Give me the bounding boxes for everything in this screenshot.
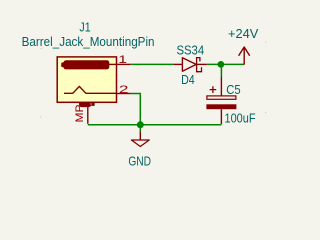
svg-text:Barrel_Jack_MountingPin: Barrel_Jack_MountingPin [22,34,155,49]
grid dot [265,112,266,113]
capacitor C5 top lead [220,77,222,96]
J1 tip contact nub [61,62,65,67]
capacitor C5 top plate [207,96,236,99]
junction at diode output [218,61,225,68]
svg-text:1: 1 [118,54,127,66]
power symbol +24V arrow [239,47,250,65]
diode D4 cathode lead [197,63,207,65]
ground symbol lead [139,125,141,132]
J1 mounting tab small square [91,103,94,106]
J1 tip to pin line [109,63,117,65]
diode D4 triangle [182,58,196,71]
wire pin1 to diode [131,63,174,65]
bottom ground wire [88,124,222,126]
svg-text:+24V: +24V [228,26,258,41]
diode D4 anode lead [173,63,182,65]
capacitor C5 bottom plate [206,104,236,109]
svg-text:100uF: 100uF [225,110,256,125]
capacitor C5 bottom lead [220,109,222,124]
grid dot [41,48,42,49]
J1 tip contact bar [63,60,109,69]
svg-text:J1: J1 [79,19,90,34]
J1 mounting tab [79,103,91,107]
ground symbol triangle [131,140,149,147]
wire pin2 to gnd corner [131,94,141,125]
diode D4 schottky cathode bar [197,58,202,72]
svg-text:GND: GND [128,154,151,169]
pin MP of J1 [87,104,89,124]
junction at gnd [137,121,144,128]
capacitor plus sign [210,86,217,93]
grid dot [115,48,116,49]
svg-text:C5: C5 [226,82,240,97]
svg-text:MP: MP [74,105,86,123]
grid dot [40,117,41,118]
wire diode to +24V [207,63,244,65]
pin 1 of J1 [117,63,131,65]
wire junction down to capacitor [220,64,222,77]
pin 2 of J1 [117,93,131,95]
connector J1 body [57,57,116,102]
svg-text:2: 2 [119,84,129,96]
grid dot [265,41,266,42]
svg-text:D4: D4 [181,72,195,87]
J1 sleeve contact polyline [64,86,117,93]
svg-text:SS34: SS34 [176,43,204,58]
